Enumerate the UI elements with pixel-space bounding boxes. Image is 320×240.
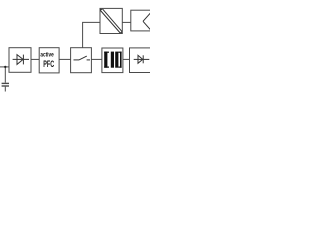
svg-text:PFC: PFC <box>43 59 54 69</box>
svg-text:active: active <box>40 52 54 58</box>
